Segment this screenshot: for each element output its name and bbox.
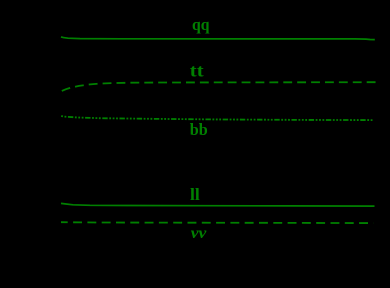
qq curve (solid): [61, 37, 375, 40]
svg-text:νν: νν: [191, 225, 207, 242]
nunu curve (dashed): [61, 221, 374, 224]
ll curve (solid): [61, 203, 375, 206]
svg-text:bb: bb: [190, 120, 208, 139]
bb curve (dash-dot-dot-dot): [61, 116, 374, 120]
svg-text:qq: qq: [192, 15, 210, 34]
svg-text:tt: tt: [190, 61, 204, 81]
svg-text:ll: ll: [190, 185, 200, 204]
tt curve (dashed): [61, 82, 376, 91]
